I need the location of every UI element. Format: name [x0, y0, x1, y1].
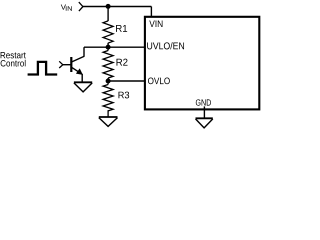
transistor Q1 collector	[72, 47, 84, 62]
wire OVLO horizontal	[108, 80, 145, 82]
input terminal chevron base	[59, 61, 63, 68]
node junction dot OVLO	[106, 79, 111, 84]
label R2	[117, 59, 128, 66]
resistor R3	[103, 81, 113, 117]
transistor Q1 emitter	[72, 67, 80, 72]
pin label VIN	[149, 21, 162, 27]
label R3	[119, 92, 130, 99]
wire base	[63, 64, 72, 66]
pin label GND	[196, 99, 211, 105]
pin label OVLO	[148, 78, 170, 85]
IC box U1	[145, 17, 259, 110]
ground at GND pin	[196, 118, 213, 128]
label R1	[116, 25, 127, 32]
transistor Q1 base bar	[70, 57, 72, 72]
label VIN-sub IN	[66, 6, 72, 10]
ground at emitter	[74, 82, 92, 92]
pulse waveform symbol	[28, 62, 58, 75]
wire VIN horizontal	[83, 6, 151, 8]
label Restart	[1, 52, 26, 58]
input terminal chevron VIN	[79, 2, 83, 11]
resistor R2	[103, 47, 113, 81]
pin label UVLO/EN	[147, 42, 184, 49]
wire GND pin stub	[203, 106, 205, 118]
label VIN-sub V	[61, 5, 66, 10]
wire emitter down	[81, 74, 83, 83]
node junction dot top	[106, 4, 111, 9]
emitter arrowhead	[76, 68, 83, 75]
label Control	[1, 60, 26, 67]
wire UVLO/EN horizontal	[84, 46, 145, 48]
resistor R1	[103, 21, 113, 43]
wire R1 top stub	[107, 7, 109, 22]
wire VIN drop into box	[150, 7, 152, 18]
ground below R3	[99, 117, 118, 126]
node junction dot UVLO	[106, 45, 111, 50]
wire R1 bottom stub	[107, 43, 109, 47]
